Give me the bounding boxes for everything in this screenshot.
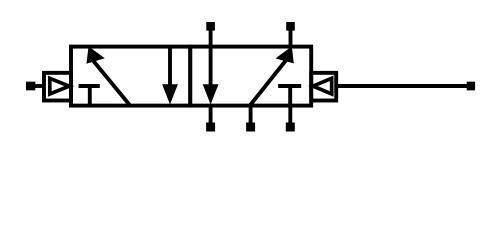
right pilot actuator box xyxy=(311,73,336,101)
right pilot triangle (pneumatic pilot, points left) xyxy=(313,78,332,94)
port 5 square cap xyxy=(206,123,215,132)
left pilot port square cap xyxy=(26,82,35,91)
flow arrow down in right square (port 4 to port 5) xyxy=(203,31,219,105)
port 4 square cap xyxy=(206,22,215,31)
flow arrow diagonal in left square xyxy=(86,46,130,105)
port 1 square cap xyxy=(246,123,255,132)
left pilot actuator box xyxy=(44,73,71,101)
port 2 square cap xyxy=(286,22,295,31)
port 3 stub bottom right xyxy=(288,104,292,123)
valve body position square left xyxy=(71,47,190,106)
port 5 stub bottom left xyxy=(209,104,213,123)
right pilot line xyxy=(336,84,471,88)
left pilot triangle (pneumatic pilot, points right) xyxy=(50,78,70,94)
left pilot line xyxy=(31,84,44,88)
flow arrow down in left square xyxy=(162,47,178,105)
flow arrow diagonal in right square (port 1 to port 2) xyxy=(249,46,294,106)
blocked port T symbol in left square xyxy=(79,86,100,106)
valve body position square right xyxy=(190,47,311,106)
right pilot port square cap xyxy=(467,82,475,91)
blocked port T symbol in right square xyxy=(278,86,301,106)
port 2 stub top right xyxy=(289,31,293,49)
port 1 stub bottom middle xyxy=(249,104,253,123)
port 3 square cap xyxy=(286,123,295,132)
